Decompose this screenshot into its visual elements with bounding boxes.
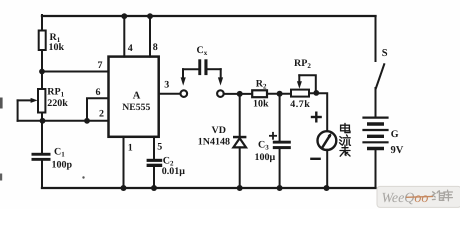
svg-text:8: 8 [153,42,158,53]
watermark CJK weiku [432,190,452,201]
wire left rail top segment [41,15,43,31]
svg-text:7: 7 [98,60,103,71]
plus sign meter [312,113,321,122]
表 [340,145,350,150]
wire RP2 to meter [309,93,327,131]
node C3 bottom junction [277,185,283,191]
库 [443,190,453,200]
wire pin 5 [153,137,155,159]
svg-text:4.7k: 4.7k [290,99,310,110]
wire pin 1 [123,137,125,188]
wire jack to R2 [224,93,252,95]
wire pin 8 [149,16,151,57]
potentiometer RP2 [290,58,316,110]
resistor R2 [252,79,269,110]
svg-text:10k: 10k [253,99,269,110]
svg-text:NE555: NE555 [122,102,150,113]
ammeter M1 [318,131,337,150]
wire battery to bottom rail [375,150,377,188]
wire RP1 to C1 [41,113,43,153]
wire meter to rail [326,150,328,188]
capacitor C3 100u [255,94,291,188]
svg-text:9V: 9V [391,145,404,156]
wire pin 3 stub [159,93,181,95]
node diode bottom junction [237,185,243,191]
svg-text:2: 2 [99,109,104,120]
svg-text:10k: 10k [49,42,65,53]
minus sign meter [311,158,319,160]
维 [432,192,435,200]
node pin6 connector junction [84,118,90,124]
svg-text:1: 1 [128,143,133,154]
diode VD 1N4148 [198,94,247,188]
wire C1 to bottom rail [41,161,43,188]
capacitor C2 0.01u [147,155,186,177]
svg-text:A: A [133,91,141,102]
node C3 branch junction [277,91,283,97]
svg-text:5: 5 [157,142,162,153]
node meter bottom junction [324,185,330,191]
wire C2 to rail [153,167,155,188]
node RP2 wiper junction [313,90,319,96]
node pin8 top junction [147,13,153,19]
电 [341,125,350,131]
node pin1 bottom junction [121,185,127,191]
wire R1 to node [41,50,43,89]
wire right plug arrow [218,69,223,85]
svg-text:S: S [382,48,388,59]
watermark WeeQoo box [377,186,460,207]
scan artifact left edge mark 1 [0,98,3,109]
node left jack terminal [181,90,188,97]
wire R2 to RP2 [267,93,291,95]
battery G 9V [364,118,404,156]
scan artifact left edge mark 2 [0,174,2,181]
流 [340,137,342,145]
op-amp U1 NE555 box [109,57,159,137]
capacitor Cx coupling [183,45,221,75]
node pin7 junction [39,69,45,75]
svg-text:WeeQoo: WeeQoo [382,191,429,206]
svg-text:220k: 220k [47,98,68,109]
svg-text:G: G [391,129,399,140]
label dianliubiao (ammeter CJK) [340,123,351,156]
scan artifact speck [82,176,84,178]
wire pin 2 line [18,120,109,122]
potentiometer RP1 [18,87,69,113]
wire switch to battery [375,88,377,116]
svg-text:100p: 100p [52,160,73,171]
wire RP1 wiper loop [17,100,19,120]
wire top rail [42,15,376,17]
wire left plug arrow [181,69,186,85]
wire pin 7 [42,71,109,73]
svg-text:6: 6 [96,87,101,98]
node C2 bottom junction [151,185,157,191]
svg-text:4: 4 [128,43,133,54]
resistor R1 [39,31,65,53]
node rail-pin2 junction [40,118,46,124]
node right jack terminal [217,90,224,97]
svg-text:100μ: 100μ [255,152,276,163]
node diode branch junction [237,91,243,97]
svg-text:VD: VD [212,125,226,136]
wire pin 6 connector [87,98,109,121]
switch S [376,16,388,89]
capacitor C1 [32,147,73,171]
svg-text:1N4148: 1N4148 [198,136,230,147]
wire bottom rail [42,187,376,189]
wire pin 4 [123,16,125,57]
svg-text:0.01μ: 0.01μ [162,166,186,177]
node pin4 top junction [121,13,127,19]
svg-text:3: 3 [164,80,169,91]
